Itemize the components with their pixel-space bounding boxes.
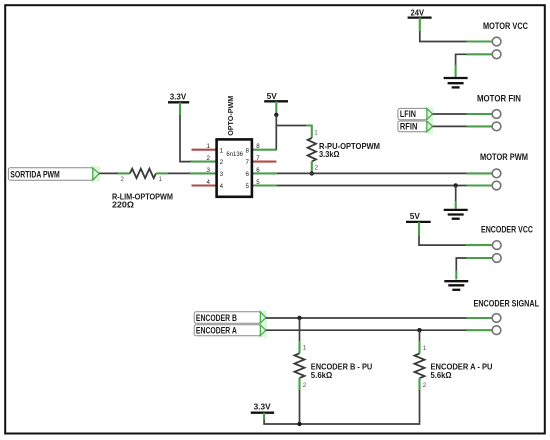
wire R-LIM to IC pin3 (168, 172, 192, 174)
svg-text:7: 7 (256, 155, 260, 162)
svg-text:1: 1 (303, 345, 307, 352)
wire ENCODER A to header (266, 329, 467, 331)
IC pin 7 stub (unconnected) (253, 161, 277, 163)
resistor ENCODER A - PU (415, 330, 427, 425)
svg-text:1: 1 (207, 143, 211, 150)
junction dot 5V (274, 113, 278, 117)
IC body (217, 139, 252, 196)
pin MOTOR FIN 2 (467, 125, 493, 127)
wire LFIN to header (433, 113, 467, 115)
power +24V symbol (408, 7, 432, 31)
junction dot R-PU to pin6 wire (310, 171, 314, 175)
IC pin 4 stub (unconnected) (192, 184, 217, 186)
svg-text:3.3V: 3.3V (254, 402, 271, 412)
svg-text:8: 8 (256, 143, 260, 150)
wire RFIN to header (433, 125, 467, 127)
svg-text:ENCODER B: ENCODER B (196, 313, 237, 323)
svg-text:MOTOR FIN: MOTOR FIN (477, 93, 521, 103)
svg-text:5: 5 (245, 183, 249, 190)
svg-text:ENCODER SIGNAL: ENCODER SIGNAL (474, 299, 540, 309)
pin ENCODER SIGNAL 2 (467, 329, 493, 331)
pin MOTOR VCC 2 (467, 53, 493, 55)
IC pin 2 stub (190, 161, 216, 163)
IC pin 8 stub (253, 149, 277, 151)
wire ENCODER VCC 2 to ground (456, 258, 466, 271)
header circle MOTOR VCC pin 2 (492, 50, 501, 59)
ground pin (motor pwm) (455, 201, 457, 209)
svg-text:24V: 24V (411, 7, 425, 17)
power 3.3V (bottom) (251, 402, 274, 420)
svg-text:MOTOR VCC: MOTOR VCC (483, 21, 528, 31)
inside pin numbers (220, 147, 224, 190)
resistor R-LIM-OPTOPWM (118, 169, 168, 184)
pin MOTOR PWM 2 (467, 184, 493, 186)
header circle ENCODER VCC 2 (492, 254, 501, 263)
net label LFIN (398, 107, 434, 121)
wire MOTOR PWM to ground (455, 186, 457, 202)
svg-text:2: 2 (315, 165, 319, 172)
net label ENCODER B (194, 310, 267, 324)
header circle MOTOR PWM 2 (492, 181, 501, 190)
net label ENCODER A (194, 324, 267, 338)
header circle ENCODER VCC 1 (492, 241, 501, 250)
wire ENCODER B to header (266, 317, 467, 319)
pin MOTOR PWM 1 (467, 172, 493, 174)
junction dot encoder A pullup (417, 328, 421, 332)
power 3.3V (top) (168, 92, 189, 116)
svg-text:OPTO-PWM: OPTO-PWM (226, 96, 235, 136)
svg-text:1: 1 (314, 129, 318, 136)
svg-text:ENCODER VCC: ENCODER VCC (481, 225, 533, 235)
ground pin (motor vcc) (455, 65, 457, 77)
svg-text:4: 4 (207, 179, 211, 186)
svg-text:5V: 5V (410, 211, 421, 221)
svg-text:2: 2 (207, 155, 211, 162)
header circle MOTOR FIN 2 (492, 122, 501, 131)
resistor R-PU-OPTOPWM (306, 126, 319, 172)
pin ENCODER SIGNAL 1 (467, 317, 493, 319)
pin MOTOR VCC 1 (467, 40, 493, 42)
wire 24V to MOTOR VCC pin 1 (420, 31, 467, 42)
svg-text:5.6kΩ: 5.6kΩ (431, 370, 452, 380)
svg-text:1: 1 (423, 345, 427, 352)
svg-text:3: 3 (220, 171, 224, 178)
header circle MOTOR PWM 1 (492, 169, 501, 178)
wire 3.3V to IC pin2 (180, 115, 191, 162)
svg-text:3.3V: 3.3V (170, 92, 187, 102)
header circle ENCODER SIGNAL 1 (492, 314, 501, 323)
svg-text:220Ω: 220Ω (112, 200, 134, 210)
wire 3.3V bottom rail (264, 420, 419, 425)
IC pin 6 stub (253, 172, 277, 174)
svg-text:2: 2 (303, 382, 307, 389)
pin MOTOR FIN 1 (467, 113, 493, 115)
svg-text:7: 7 (245, 159, 249, 166)
svg-text:6n136: 6n136 (226, 151, 243, 158)
net label RFIN (398, 120, 434, 133)
junction dot bottom rail (297, 422, 301, 426)
power 5V (mid) (406, 211, 431, 236)
pin ENCODER VCC 1 (466, 244, 493, 246)
header circle MOTOR FIN 1 (492, 110, 501, 119)
header circle MOTOR VCC pin 1 (492, 37, 501, 46)
power 5V (top) (264, 91, 288, 113)
ground symbol GND2 (444, 210, 468, 219)
op-to-isolator IC U1 6n136 (190, 96, 277, 197)
IC pin 1 stub (unconnected) (192, 149, 217, 151)
svg-text:RFIN: RFIN (400, 122, 418, 132)
junction dot MOTOR PWM gnd (454, 183, 458, 187)
wire 5V to ENCODER VCC 1 (419, 236, 466, 245)
header circle ENCODER SIGNAL 2 (492, 326, 501, 335)
ground pin (encoder vcc) (455, 271, 457, 280)
wire 5V branch to R-PU (276, 125, 306, 127)
svg-text:MOTOR PWM: MOTOR PWM (480, 152, 528, 162)
svg-text:5.6kΩ: 5.6kΩ (311, 370, 333, 380)
svg-text:8: 8 (245, 147, 249, 154)
svg-text:6: 6 (256, 167, 260, 174)
svg-text:4: 4 (220, 183, 224, 190)
svg-text:2: 2 (220, 159, 224, 166)
svg-text:1: 1 (159, 176, 163, 183)
svg-text:1: 1 (220, 147, 224, 154)
outside pin numbers (207, 143, 211, 186)
svg-text:LFIN: LFIN (400, 109, 416, 119)
ground symbol GND3 (444, 281, 468, 290)
svg-text:2: 2 (121, 176, 125, 183)
svg-text:SORTIDA PWM: SORTIDA PWM (10, 169, 60, 179)
net label SORTIDA PWM (8, 166, 100, 182)
resistor ENCODER B - PU (295, 318, 307, 424)
wire IC pin6 to MOTOR PWM 1 (277, 172, 467, 174)
svg-text:ENCODER A: ENCODER A (196, 326, 237, 336)
svg-text:2: 2 (423, 382, 427, 389)
wire SORTIDA to R-LIM (99, 172, 118, 174)
wire 5V to IC pin8 (275, 115, 277, 150)
svg-text:3.3kΩ: 3.3kΩ (319, 149, 340, 159)
svg-text:3: 3 (207, 167, 211, 174)
ground symbol GND1 (444, 78, 468, 87)
svg-text:6: 6 (245, 171, 249, 178)
pin ENCODER VCC 2 (466, 257, 493, 259)
wire IC pin5 to MOTOR PWM 2 (277, 185, 467, 187)
IC pin 3 stub (190, 172, 216, 174)
IC pin 5 stub (253, 184, 277, 186)
svg-text:5: 5 (256, 179, 260, 186)
junction dot encoder B pullup (297, 316, 301, 320)
wire MOTOR VCC 2 to ground (456, 54, 467, 64)
svg-text:5V: 5V (267, 91, 278, 101)
